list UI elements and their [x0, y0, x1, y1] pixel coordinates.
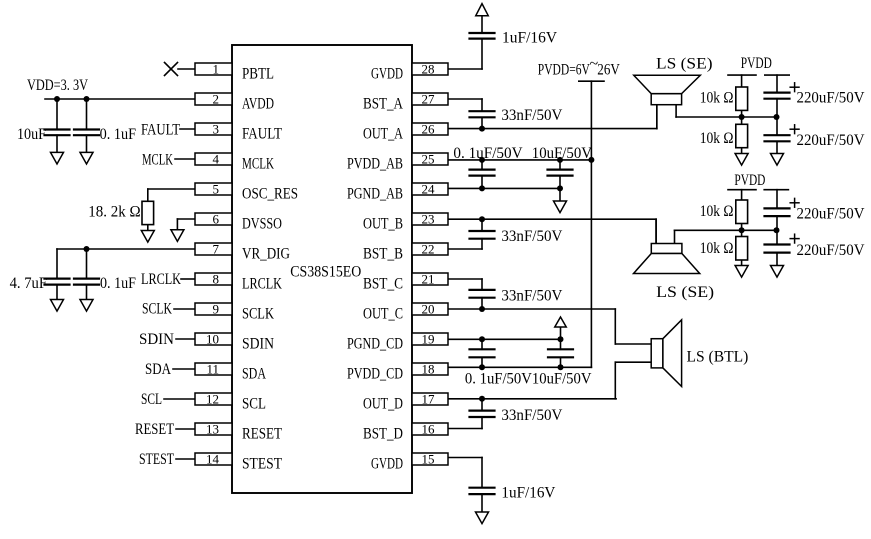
svg-text:OSC_RES: OSC_RES [242, 186, 298, 203]
svg-text:SCL: SCL [242, 396, 266, 413]
svg-text:20: 20 [422, 302, 435, 317]
svg-text:RESET: RESET [135, 421, 174, 438]
svg-text:33nF/50V: 33nF/50V [501, 407, 562, 424]
svg-text:12: 12 [206, 392, 219, 407]
svg-text:LRCLK: LRCLK [141, 271, 181, 288]
svg-text:24: 24 [422, 182, 436, 197]
svg-text:3: 3 [213, 122, 220, 137]
svg-text:PVDD: PVDD [734, 172, 765, 189]
svg-text:STEST: STEST [139, 451, 174, 468]
svg-text:OUT_C: OUT_C [363, 306, 403, 323]
svg-text:8: 8 [213, 272, 220, 287]
svg-text:1uF/16V: 1uF/16V [501, 485, 555, 502]
svg-text:33nF/50V: 33nF/50V [501, 107, 562, 124]
svg-text:PVDD_AB: PVDD_AB [347, 156, 403, 173]
svg-text:PVDD=6V: PVDD=6V [538, 62, 590, 79]
svg-text:0. 1uF: 0. 1uF [100, 126, 136, 143]
svg-text:33nF/50V: 33nF/50V [501, 228, 562, 245]
svg-text:PVDD: PVDD [741, 55, 772, 72]
svg-text:18. 2k Ω: 18. 2k Ω [88, 204, 141, 221]
svg-text:1uF/16V: 1uF/16V [502, 30, 557, 47]
svg-text:0. 1uF/50V10uF/50V: 0. 1uF/50V10uF/50V [465, 371, 592, 388]
svg-text:6: 6 [213, 212, 220, 227]
svg-text:GVDD: GVDD [371, 66, 403, 83]
svg-text:14: 14 [206, 452, 220, 467]
svg-text:OUT_A: OUT_A [363, 126, 403, 143]
svg-text:SDIN: SDIN [242, 336, 274, 353]
svg-text:21: 21 [422, 272, 435, 287]
svg-text:GVDD: GVDD [371, 456, 403, 473]
svg-text:BST_A: BST_A [363, 96, 403, 113]
svg-text:25: 25 [422, 152, 435, 167]
svg-text:23: 23 [422, 212, 435, 227]
svg-text:28: 28 [422, 62, 435, 77]
svg-text:220uF/50V: 220uF/50V [797, 90, 865, 107]
svg-text:VDD=3. 3V: VDD=3. 3V [27, 77, 88, 94]
svg-text:FAULT: FAULT [242, 126, 282, 143]
svg-text:BST_D: BST_D [363, 426, 403, 443]
svg-text:26: 26 [422, 122, 436, 137]
svg-text:13: 13 [206, 422, 219, 437]
svg-text:BST_C: BST_C [363, 276, 403, 293]
svg-text:1: 1 [213, 62, 220, 77]
svg-text:PBTL: PBTL [242, 66, 274, 83]
svg-text:LS (BTL): LS (BTL) [687, 349, 749, 366]
svg-text:0. 1uF: 0. 1uF [100, 275, 136, 292]
svg-text:VR_DIG: VR_DIG [242, 246, 290, 263]
svg-text:STEST: STEST [242, 456, 282, 473]
svg-text:SDA: SDA [242, 366, 266, 383]
svg-text:220uF/50V: 220uF/50V [797, 242, 865, 259]
svg-text:PGND_CD: PGND_CD [347, 336, 403, 353]
svg-text:9: 9 [213, 302, 220, 317]
svg-text:AVDD: AVDD [242, 96, 274, 113]
svg-text:SCL: SCL [141, 391, 162, 408]
svg-text:PGND_AB: PGND_AB [347, 186, 403, 203]
svg-text:4: 4 [213, 152, 220, 167]
svg-text:PVDD_CD: PVDD_CD [347, 366, 403, 383]
svg-text:SDA: SDA [145, 361, 171, 378]
svg-text:10k Ω: 10k Ω [700, 203, 734, 220]
svg-text:10k Ω: 10k Ω [700, 240, 734, 257]
svg-text:MCLK: MCLK [142, 152, 173, 169]
svg-text:SCLK: SCLK [142, 301, 172, 318]
svg-text:33nF/50V: 33nF/50V [501, 288, 562, 305]
svg-text:26V: 26V [597, 62, 620, 79]
svg-text:FAULT: FAULT [141, 122, 180, 139]
svg-text:11: 11 [206, 362, 219, 377]
svg-text:17: 17 [422, 392, 436, 407]
svg-text:0. 1uF/50V: 0. 1uF/50V [453, 145, 523, 162]
svg-text:4. 7uF: 4. 7uF [10, 275, 47, 292]
svg-text:27: 27 [422, 92, 436, 107]
svg-text:LS (SE): LS (SE) [656, 56, 713, 73]
svg-text:15: 15 [422, 452, 435, 467]
svg-text:SCLK: SCLK [242, 306, 274, 323]
svg-text:BST_B: BST_B [363, 246, 403, 263]
svg-text:LS (SE): LS (SE) [656, 284, 714, 301]
svg-text:DVSSO: DVSSO [242, 216, 282, 233]
svg-text:10uF: 10uF [17, 126, 46, 143]
svg-text:10k Ω: 10k Ω [700, 90, 734, 107]
svg-text:5: 5 [213, 182, 220, 197]
svg-text:RESET: RESET [242, 426, 282, 443]
svg-text:220uF/50V: 220uF/50V [797, 206, 865, 223]
svg-text:10k Ω: 10k Ω [700, 130, 734, 147]
svg-text:19: 19 [422, 332, 435, 347]
svg-text:16: 16 [422, 422, 436, 437]
svg-text:220uF/50V: 220uF/50V [797, 132, 865, 149]
svg-text:10: 10 [206, 332, 219, 347]
svg-text:OUT_D: OUT_D [363, 396, 403, 413]
svg-text:MCLK: MCLK [242, 156, 274, 173]
svg-text:10uF/50V: 10uF/50V [532, 145, 593, 162]
svg-text:22: 22 [422, 242, 435, 257]
svg-text:18: 18 [422, 362, 435, 377]
svg-text:7: 7 [213, 242, 220, 257]
svg-text:SDIN: SDIN [139, 331, 174, 348]
svg-text:LRCLK: LRCLK [242, 276, 282, 293]
svg-text:2: 2 [213, 92, 220, 107]
svg-text:CS38S15EO: CS38S15EO [290, 264, 361, 281]
svg-text:OUT_B: OUT_B [363, 216, 403, 233]
